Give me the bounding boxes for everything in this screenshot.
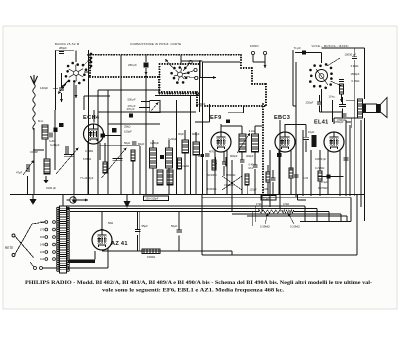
wire ef9 pins	[214, 150, 216, 194]
wire ebc3 pins	[278, 150, 280, 194]
IF1 coil d	[167, 170, 173, 185]
shield dotted second line	[90, 76, 159, 78]
wire corner x305	[304, 206, 306, 222]
wire cross b	[222, 176, 242, 190]
capacitor s3 a	[352, 57, 357, 59]
rotary switch S3	[309, 63, 333, 89]
wire x146 drop	[145, 100, 147, 195]
wire ebc3 net	[267, 165, 269, 172]
wire choke up	[94, 251, 96, 260]
capacitor 55uF	[135, 230, 141, 232]
wire bus x296	[295, 62, 297, 197]
wire ech4 top	[93, 110, 95, 123]
svg-text:0.27MΩ: 0.27MΩ	[315, 166, 324, 170]
wire bus x88	[88, 50, 90, 194]
wire bus x202 top	[203, 61, 241, 63]
wire cross a	[222, 176, 242, 190]
wire right border	[356, 195, 358, 256]
ground osc	[71, 196, 76, 204]
wire coil join	[33, 149, 44, 151]
wire bus x270	[269, 150, 271, 207]
svg-text:900pF: 900pF	[230, 154, 238, 158]
svg-text:50/1000: 50/1000	[207, 173, 217, 177]
capacitor if1	[160, 155, 164, 159]
wire bus x361	[360, 120, 362, 207]
tube EL41	[324, 132, 344, 152]
rotary switch S2	[170, 66, 189, 84]
svg-text:6.8MΩ: 6.8MΩ	[83, 157, 91, 161]
capacitor el41 o	[344, 158, 349, 160]
capacitor s3 col	[339, 80, 344, 82]
wire speaker	[346, 99, 355, 101]
svg-text:140pF: 140pF	[40, 86, 48, 90]
capacitor ebc3	[271, 178, 276, 180]
wire h90	[98, 89, 160, 91]
bus y206	[66, 205, 305, 207]
wire corner x341	[340, 214, 342, 222]
potentiometer vol 0.39M	[259, 210, 280, 213]
bus bottom y255	[202, 254, 357, 256]
resistor 50 ohm arrow	[101, 212, 103, 221]
wire row500	[141, 101, 150, 103]
shield dotted top line	[88, 54, 241, 56]
wire antenna down	[33, 128, 35, 195]
wire el41 grid col	[332, 100, 334, 122]
svg-text:COMP.: COMP.	[30, 150, 39, 154]
capacitor 50pF grid	[112, 128, 117, 133]
electrolytic 10uF	[312, 135, 317, 147]
wire transformer top	[62, 195, 64, 207]
svg-text:BANDA 25-52 M: BANDA 25-52 M	[55, 42, 80, 46]
wire bus x262	[261, 196, 263, 212]
svg-text:470 pF: 470 pF	[127, 107, 135, 111]
wire S1 left	[55, 50, 57, 110]
resistor ef9 k	[212, 160, 216, 170]
svg-text:125: 125	[40, 250, 45, 254]
svg-text:PHILIPS RADIO - Modd. BI 482/A: PHILIPS RADIO - Modd. BI 482/A, BI 483/A…	[25, 280, 372, 286]
wire avc vertical	[199, 60, 201, 78]
svg-text:EL41: EL41	[314, 120, 329, 126]
wire avc drops	[251, 212, 253, 227]
svg-text:3+30: 3+30	[49, 139, 55, 143]
wire corner ech4 box	[84, 95, 110, 97]
wire el41 pins	[327, 150, 329, 194]
svg-text:400pF: 400pF	[246, 154, 254, 158]
svg-text:10μF: 10μF	[308, 130, 315, 134]
choke bar	[68, 260, 95, 264]
IF1 coil b	[166, 148, 173, 168]
wire ebc3 top	[284, 125, 286, 133]
svg-text:50pF: 50pF	[124, 141, 131, 145]
capacitor el41 k	[318, 176, 344, 178]
wire ech4 pins	[87, 141, 89, 194]
svg-text:0.27MΩ: 0.27MΩ	[318, 186, 327, 190]
wire S2 top	[180, 55, 182, 65]
wire box under S2	[97, 90, 99, 194]
capacitor on bus x202	[201, 154, 204, 157]
svg-text:55μF: 55μF	[142, 224, 149, 228]
shield dotted step v2	[196, 92, 198, 106]
output transformer coil	[358, 99, 363, 118]
wire loop left	[139, 212, 141, 252]
arrow under S1	[75, 85, 78, 98]
svg-text:1500Ω: 1500Ω	[147, 255, 155, 259]
wire ef9 net	[223, 152, 225, 162]
svg-text:ECH4: ECH4	[83, 115, 100, 121]
arrow avc	[200, 76, 216, 79]
wire corner x351	[350, 197, 352, 221]
svg-text:170: 170	[40, 228, 45, 232]
wire bus x176	[176, 100, 178, 194]
bus chassis y194.5	[10, 194, 364, 196]
svg-text:EF9: EF9	[210, 115, 222, 121]
arrow ef9 k b	[225, 157, 228, 167]
svg-text:3+30pF: 3+30pF	[196, 102, 206, 106]
shield dotted left return	[89, 55, 91, 77]
transformer voltage taps	[40, 220, 56, 261]
shield dotted bottom line	[197, 105, 266, 107]
svg-text:EBC3: EBC3	[274, 115, 290, 121]
capacitor ef9 g	[205, 154, 210, 156]
resistor ech4 k	[103, 162, 107, 173]
svg-text:0.1μF: 0.1μF	[263, 196, 270, 200]
wire bus x364	[364, 118, 366, 221]
wire bus x364 top	[364, 48, 366, 99]
wire fono right	[292, 50, 294, 106]
svg-text:RETE: RETE	[5, 246, 13, 250]
capacitor ebc3 grid	[277, 153, 282, 157]
svg-text:77÷4400pF: 77÷4400pF	[80, 176, 94, 180]
bus y208.5	[66, 208, 317, 210]
resistor ech4 g2	[131, 150, 135, 161]
svg-text:10000Ω: 10000Ω	[207, 187, 216, 191]
wire bus x280	[279, 120, 281, 209]
wire if1 links	[152, 140, 154, 148]
svg-text:0.22: 0.22	[303, 176, 309, 180]
switch mains	[34, 267, 43, 270]
wire bus x190	[190, 96, 192, 194]
resistor det a	[245, 174, 249, 185]
capacitor fono coupling	[302, 51, 306, 55]
IF2 coil b	[252, 134, 259, 152]
shield dotted step h1	[159, 91, 197, 93]
svg-text:17kΩ: 17kΩ	[256, 202, 262, 206]
wire x202 down	[201, 195, 203, 256]
wire corner x317	[316, 209, 318, 222]
bus y216	[247, 215, 347, 217]
arrow ef9 k a	[214, 157, 217, 167]
svg-text:145: 145	[40, 243, 45, 247]
wire diag s3 a	[327, 58, 340, 66]
rotary switch S1	[65, 62, 88, 85]
variable capacitor C-tune1	[27, 164, 29, 172]
terminal fono 2	[263, 51, 266, 54]
svg-text:284pF: 284pF	[59, 46, 67, 50]
svg-text:160: 160	[40, 235, 45, 239]
svg-text:vole sono le seguenti: EF6, EB: vole sono le seguenti: EF6, EBL1 e AZ1. …	[102, 288, 285, 294]
trimmer box	[150, 100, 160, 112]
svg-text:4/7Ω: 4/7Ω	[198, 154, 204, 158]
bus y211.5a	[70, 211, 259, 213]
wire fono	[252, 55, 254, 62]
capacitor on x55	[53, 128, 57, 132]
svg-text:10000 pF: 10000 pF	[315, 157, 327, 161]
potentiometer tone 0.23M	[282, 210, 294, 213]
shield dotted stair v3	[251, 68, 253, 84]
arrow S1 tap	[58, 84, 66, 94]
tube AZ41	[92, 230, 112, 250]
wire corner x347	[346, 216, 348, 222]
svg-text:4700pF: 4700pF	[337, 118, 346, 122]
wire fono to s3	[295, 52, 322, 54]
shield dotted stair h3	[252, 83, 266, 85]
shield dotted step v1	[158, 77, 160, 92]
wire 250pF down	[145, 75, 147, 100]
bus bottom y251	[102, 250, 232, 252]
wire x55 lower	[54, 110, 56, 170]
ground heater tap	[124, 195, 131, 209]
wire varcap left	[27, 176, 29, 195]
capacitor ef9 k	[222, 162, 227, 164]
wire bus x346	[345, 120, 347, 196]
capacitor 284pF	[59, 52, 64, 54]
wire if2 low	[241, 164, 243, 194]
svg-text:1500pF: 1500pF	[351, 72, 360, 76]
wire s3 h112	[320, 111, 343, 113]
capacitor ebc3 c	[294, 175, 299, 177]
svg-text:COMMUTATORE IN POSIZ. CORTE: COMMUTATORE IN POSIZ. CORTE	[130, 42, 181, 46]
wire el41 links	[310, 150, 312, 196]
IF1 coil c	[157, 170, 163, 185]
svg-text:9.1kΩ: 9.1kΩ	[249, 129, 256, 133]
bus y221.5	[300, 221, 351, 223]
transformer secondary winding	[67, 207, 70, 271]
shield dotted box around S2	[160, 93, 200, 95]
trimmer aerial	[50, 133, 52, 138]
bus y214	[232, 213, 341, 215]
wire x121 drop	[120, 55, 122, 112]
wire ef9 label frame	[209, 104, 211, 122]
svg-text:0.1MΩ: 0.1MΩ	[352, 79, 360, 83]
antenna lead-in	[31, 75, 38, 130]
capacitor 50pF top	[59, 123, 64, 127]
wire if2	[221, 125, 242, 127]
wire bus x202	[202, 62, 204, 194]
padding box 230-315	[144, 196, 169, 201]
svg-text:25kΩ: 25kΩ	[124, 125, 131, 129]
svg-text:50000Ω: 50000Ω	[226, 173, 235, 177]
wire s3 net	[321, 89, 323, 112]
shield IF2 dotted	[262, 104, 264, 193]
svg-text:0.1MΩ: 0.1MΩ	[85, 149, 93, 153]
capacitor 10uF coupling	[303, 137, 309, 139]
svg-text:500 pF: 500 pF	[128, 98, 136, 102]
capacitor 50uF	[176, 230, 182, 232]
svg-text:47pF: 47pF	[16, 171, 23, 175]
coil L1 aerial	[42, 125, 48, 139]
svg-text:120pF: 120pF	[250, 188, 258, 192]
svg-text:VOCE – MUSICA – BASSI: VOCE – MUSICA – BASSI	[312, 44, 349, 48]
wire S1 to shield	[75, 51, 77, 63]
capacitor if2 b	[253, 165, 258, 167]
wire x232 joint	[231, 251, 233, 255]
shield dotted stair v4	[265, 84, 267, 106]
ground transformer	[30, 195, 37, 206]
arrow s3 col	[340, 94, 343, 102]
wire az41 filament	[107, 248, 109, 268]
capacitor bottom s3	[339, 105, 346, 107]
resistor el41 a	[318, 171, 322, 181]
svg-text:220pF: 220pF	[306, 101, 314, 105]
terminal fono 1	[251, 51, 254, 54]
svg-text:50Ω: 50Ω	[108, 221, 113, 225]
resistor ebc3 a	[266, 172, 270, 182]
pilot lamp	[70, 197, 76, 203]
resistor s3 col	[340, 84, 344, 94]
IF1 coil a	[150, 148, 157, 168]
svg-text:0.39MΩ: 0.39MΩ	[260, 225, 270, 229]
osc coil a	[182, 140, 189, 153]
svg-text:0.45: 0.45	[249, 163, 255, 167]
ground aerial coil	[43, 176, 48, 184]
svg-text:4/70: 4/70	[209, 150, 215, 154]
wire corner step	[297, 195, 299, 201]
arrow core if2	[237, 133, 250, 153]
IF2 coil a	[239, 134, 246, 152]
wire diag s3 b	[331, 81, 342, 86]
arrow S2 tap	[165, 59, 173, 68]
svg-text:3+30pF: 3+30pF	[168, 137, 177, 141]
wire bus x303	[302, 130, 304, 196]
resistor if1 agc	[178, 158, 182, 169]
variable capacitor tuning2	[113, 159, 123, 161]
svg-text:230÷315pF: 230÷315pF	[146, 197, 159, 201]
wire corner x329	[328, 212, 330, 222]
svg-text:10 kc.: 10 kc.	[329, 95, 336, 99]
svg-text:50μF: 50μF	[171, 224, 178, 228]
bus y211.5b	[294, 211, 330, 213]
svg-text:FONO: FONO	[250, 44, 259, 48]
variable capacitor osc	[64, 155, 74, 157]
capacitor el41 g	[342, 114, 347, 116]
svg-text:90pF: 90pF	[178, 132, 184, 136]
shield dotted stair h2	[241, 67, 252, 69]
wire S1 to bus	[84, 71, 89, 73]
arrow 140pF down	[60, 93, 63, 102]
shield dotted right v stair1	[240, 55, 242, 68]
capacitor if2 a	[240, 160, 245, 162]
svg-text:71 pF: 71 pF	[294, 46, 302, 50]
bus y197.3	[202, 196, 351, 198]
capacitor 250pF	[144, 63, 149, 68]
tube ECH4	[84, 124, 104, 144]
svg-text:AZ 41: AZ 41	[111, 241, 128, 247]
wire h124	[108, 123, 160, 125]
wire x74 column	[73, 83, 75, 195]
transformer primary winding	[57, 207, 60, 271]
svg-text:3+30pF: 3+30pF	[150, 141, 159, 145]
tube EBC3	[275, 132, 295, 152]
osc coil b	[193, 142, 200, 155]
wire det	[246, 185, 248, 194]
capacitor 140pF	[59, 88, 64, 90]
wire osc coils	[184, 130, 186, 140]
svg-text:110: 110	[40, 257, 45, 261]
wire ech4 net	[120, 112, 122, 195]
svg-text:0.23MΩ: 0.23MΩ	[290, 225, 300, 229]
resistor ebc3 b	[289, 168, 293, 178]
transformer core	[60, 206, 67, 273]
coil L2	[44, 159, 50, 174]
svg-text:250 pF: 250 pF	[128, 63, 137, 67]
wire ef9 top	[220, 124, 222, 132]
svg-text:47kΩ: 47kΩ	[283, 202, 289, 206]
capacitor 0.1uF box	[261, 196, 276, 201]
padder capacitor	[66, 146, 68, 154]
arrow fono down	[264, 55, 267, 68]
svg-text:0.1μF: 0.1μF	[321, 180, 328, 184]
speaker	[363, 98, 387, 118]
resistor 1500 ohm	[142, 249, 160, 254]
contact strip S1	[90, 53, 93, 68]
mains cross wires	[15, 236, 34, 258]
svg-text:3130 pF: 3130 pF	[46, 186, 56, 190]
wire x140 drop	[139, 146, 141, 195]
svg-text:100pF: 100pF	[124, 130, 132, 134]
svg-text:M.A.: M.A.	[38, 119, 44, 123]
tube EF9	[211, 132, 231, 152]
